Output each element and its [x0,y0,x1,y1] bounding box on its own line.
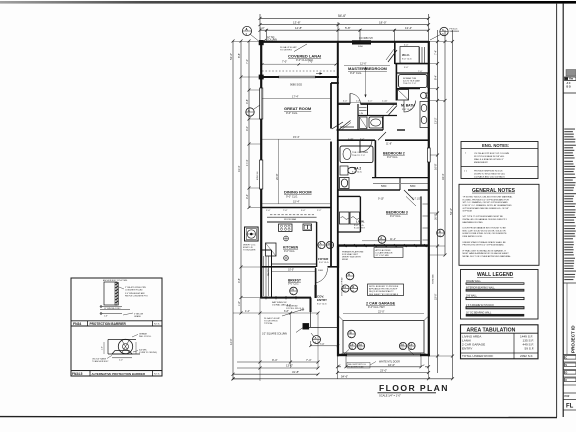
fn34.5 platform line [108,339,136,341]
svg-text:17'-4": 17'-4" [245,159,249,166]
bath2 tub [340,146,373,163]
svg-text:DINING ROOM: DINING ROOM [284,190,312,195]
fn34 leader notes right [119,287,124,289]
svg-text:16" OC BEARING WALL: 16" OC BEARING WALL [466,311,492,314]
detail marker circle top-right FN34.5 [440,27,448,35]
marker H brkfst [290,287,298,295]
mbath vanity [420,102,429,128]
svg-text:4'-4": 4'-4" [245,310,250,313]
mbath shower [398,90,409,101]
top dimension line third tier [260,29,429,31]
lanai south wall (great room north) [260,76,279,78]
svg-text:AREA TABULATION: AREA TABULATION [467,328,516,334]
great room dim line [262,98,331,100]
svg-text:9080 SGD: 9080 SGD [290,83,302,87]
svg-text:10'-0": 10'-0" [288,268,294,271]
exterior left wall [260,41,262,298]
svg-text:ROMAN TUB: ROMAN TUB [403,77,417,80]
svg-text:IF HVAC UNIT IS INSTALLED IN G: IF HVAC UNIT IS INSTALLED IN GARAGE, IT [463,249,507,252]
bed2 closet top wall [372,177,429,179]
title block date row [563,392,576,394]
svg-text:DOOR FROM GARAGE INTO HOUSE TO: DOOR FROM GARAGE INTO HOUSE TO BE [463,227,507,230]
garage door opening sill [346,353,421,355]
closet shelves bed2 [373,183,399,185]
brkfst nook dim [272,271,316,273]
svg-text:1'-0": 1'-0" [101,346,103,350]
svg-text:7'-4": 7'-4" [434,50,438,55]
svg-text:EMBEDMENT.: EMBEDMENT. [474,162,488,164]
garage builder note box [368,284,404,296]
svg-text:4'-0": 4'-0" [245,126,249,131]
bottom dim row 3 [233,373,318,375]
lin closet walls [357,104,359,130]
bath2/bed2 north wall [338,139,375,141]
pantry shelves [263,256,265,296]
kitchen lower counter [272,263,317,265]
svg-text:FN34.5: FN34.5 [72,372,83,376]
svg-text:6": 6" [339,365,341,367]
exterior top wall [260,41,429,43]
svg-text:WOOD BAR: WOOD BAR [284,218,297,221]
svg-text:TO BUILDER: TO BUILDER [243,250,256,252]
bottom dim row 4 overall [233,378,453,380]
right dimension ticks [436,40,454,380]
svg-text:GRADE: GRADE [134,315,141,318]
fn34 bollard post hatched [115,283,118,306]
svg-text:34'-4": 34'-4" [441,173,445,180]
garage bottom wall left segment [337,354,347,356]
svg-text:9'-0" CLG HGT: 9'-0" CLG HGT [296,59,313,62]
garage bottom wall right segment [420,354,430,356]
wic door diagonal [388,50,397,62]
svg-text:ALTERNATIVE PROTECTION BARRIER: ALTERNATIVE PROTECTION BARRIER [92,372,146,376]
svg-text:ENTRY: ENTRY [462,347,472,351]
sheet right border [556,3,558,417]
bed2 closet divider [399,178,401,190]
great room/hall opening wall lower [330,208,332,268]
svg-text:12" MIN DIA CONC.: 12" MIN DIA CONC. [104,307,121,310]
lanai corner column top-left [259,40,264,45]
svg-text:7'-0": 7'-0" [282,59,287,63]
left dimension extension lines [233,41,261,43]
kitchen fridge [266,243,277,256]
brkfst south bay window wall [260,297,311,299]
svg-text:ANCHOR BOLT 1/2"x6" MIN.: ANCHOR BOLT 1/2"x6" MIN. [103,279,128,282]
svg-text:23'-0": 23'-0" [380,368,387,372]
svg-text:18'-0": 18'-0" [379,20,387,24]
svg-text:10d NAILS AND (10) 10d NAILS: 10d NAILS AND (10) 10d NAILS [474,175,505,178]
garage west wall [337,246,339,356]
title block firm name row [565,77,576,80]
svg-text:FN 34.5: FN 34.5 [450,29,459,31]
mbath toilet [421,93,427,99]
svg-text:7'-0": 7'-0" [245,59,249,64]
bed3 door swing [404,190,414,200]
svg-text:BEDROOM 3: BEDROOM 3 [386,210,408,214]
svg-text:DB: DB [409,348,413,350]
kitchen upper counter [267,221,317,223]
fn34.5 leader notes [132,334,138,337]
entry west wall with front door [310,298,312,312]
bath2 east wall [374,140,376,177]
svg-text:LOCATE W/BLDR: LOCATE W/BLDR [376,252,393,255]
fn34.5 wheel drawing [118,339,132,353]
scanned page top edge strip [0,1,576,4]
svg-text:C: C [565,378,567,382]
svg-text:MASTER BEDROOM: MASTER BEDROOM [348,66,388,71]
svg-text:13'-4": 13'-4" [405,26,412,30]
svg-text:BAY WINDOW: BAY WINDOW [272,301,287,304]
svg-text:9'-0" CLG.: 9'-0" CLG. [387,156,398,159]
marker pair foyer top [318,241,325,248]
hall linen hatch [339,146,341,148]
svg-text:26 GA LP 40 HIP: 26 GA LP 40 HIP [264,317,280,320]
svg-text:F##: F## [565,394,570,398]
svg-text:CS 294-A3 STP BUILT UP COLUMN: CS 294-A3 STP BUILT UP COLUMN [474,152,510,155]
svg-text:11'-8": 11'-8" [386,143,392,146]
title block fine print text column [564,129,576,281]
svg-text:Hm: Hm [569,77,574,81]
right dimension extension lines [429,41,453,43]
bed3/laundry north wall [338,195,360,197]
svg-text:1'-6": 1'-6" [104,316,108,318]
marker circle right side B [437,229,445,237]
wic west wall [394,41,396,64]
laundry door on firewall [348,242,356,244]
svg-text:CONCRETE FILLED: CONCRETE FILLED [125,289,143,291]
svg-text:5'-0": 5'-0" [404,67,409,69]
svg-text:A: A [315,336,317,340]
svg-text:42x72 TILE DAM: 42x72 TILE DAM [403,80,420,83]
svg-text:2'-2": 2'-2" [317,210,322,212]
svg-text:59 S.F.: 59 S.F. [525,347,535,351]
title block section divider [563,92,576,94]
svg-text:PROJECT ID: PROJECT ID [571,325,576,353]
svg-text:FIRE RATED DOOR.: FIRE RATED DOOR. [463,235,483,238]
bath2 door arc [360,140,372,152]
svg-text:54'-6": 54'-6" [341,375,348,379]
svg-text:6'-8": 6'-8" [300,310,305,312]
svg-text:5'-8": 5'-8" [345,26,351,30]
top dimension line overall 54'-6" [260,17,429,19]
title block left edge [562,3,564,417]
svg-text:9'-0" CLG.: 9'-0" CLG. [350,71,362,75]
marker A entry [313,336,321,344]
svg-text:TILE TO 7'-0": TILE TO 7'-0" [352,155,365,157]
svg-text:26 GA LP 40 HIP: 26 GA LP 40 HIP [280,46,297,49]
svg-text:9'-0" CLG: 9'-0" CLG [354,225,364,227]
svg-text:9'-0" CLG.: 9'-0" CLG. [284,250,295,253]
svg-text:9'-0" CLG: 9'-0" CLG [317,303,327,305]
svg-text:12'-0": 12'-0" [229,338,233,345]
svg-text:9'-4" CLG. HGT.: 9'-4" CLG. HGT. [368,306,385,309]
title block small cells [563,354,576,356]
right middle vertical dimension line [444,30,446,255]
svg-text:ENTRY: ENTRY [317,298,327,302]
svg-text:4050 SH: 4050 SH [257,171,259,180]
fn34 label bar [71,320,162,322]
bed2 east window [427,148,430,162]
svg-text:BEDROOM 2: BEDROOM 2 [383,152,405,156]
svg-text:1/2" SQUARE COLUMN: 1/2" SQUARE COLUMN [262,332,287,335]
svg-text:SCALE 1/4" = 1'-0": SCALE 1/4" = 1'-0" [379,394,401,398]
svg-text:COVERED LANAI: COVERED LANAI [288,54,321,59]
svg-text:5'-0": 5'-0" [301,210,306,212]
left inner vertical dimension line [248,41,250,208]
right inner vertical dimension line [437,30,439,373]
kitchen wood bar dashed [270,214,314,216]
svg-text:20'-8": 20'-8" [434,213,438,220]
svg-text:7'-0": 7'-0" [418,71,423,73]
svg-text:22" X 54" MIN: 22" X 54" MIN [376,255,390,257]
lanai roof dashed line [262,70,336,72]
master vertical dim arrow [365,67,367,97]
marker pair garage west [342,285,349,292]
svg-text:BARRIER: BARRIER [450,30,460,33]
svg-text:15'-4": 15'-4" [293,200,300,204]
fn34.5 label bar [71,370,162,372]
wic closet shelves [419,47,421,63]
svg-text:MUST HAVE A MINIMUM OF 26 GAUG: MUST HAVE A MINIMUM OF 26 GAUGE SHEET [463,252,510,255]
svg-text:7'-4": 7'-4" [306,358,312,362]
svg-text:APPLIANCE PROTECTION IF: APPLIANCE PROTECTION IF [369,288,398,291]
bottom dimension ticks [232,361,431,381]
svg-text:9'-10": 9'-10" [378,197,384,200]
brkfst west wall (pantry) [261,249,271,251]
svg-text:WALL LEGEND: WALL LEGEND [477,272,514,278]
svg-text:HOSE BIB: HOSE BIB [433,274,435,284]
svg-text:4'-8": 4'-8" [237,278,241,283]
svg-text:1'-8": 1'-8" [238,301,241,306]
leader lines garage markers [343,349,349,355]
dining/kitchen divider wall [262,207,331,209]
svg-text:FOR HVAC UNIT: FOR HVAC UNIT [342,253,359,256]
left middle vertical dimension line [240,41,242,313]
firewall hatch ticks [344,244,347,247]
master south wall [338,103,350,105]
svg-text:9'-0" CLG.: 9'-0" CLG. [390,215,401,218]
svg-text:3/8" O.C. FRAMING, OR 5/8" GYP: 3/8" O.C. FRAMING, OR 5/8" GYPSUM BOARD [463,201,509,204]
column leader note [296,328,303,333]
svg-text:5/8" TYPE 'X' GYPSUM BOARD MUS: 5/8" TYPE 'X' GYPSUM BOARD MUST BE [463,215,504,218]
svg-text:5050: 5050 [358,46,364,48]
svg-text:MIN. 1-3/8" SOLID WOOD DOOR, S: MIN. 1-3/8" SOLID WOOD DOOR, SOLID OR [463,230,507,232]
svg-text:GYPSUM BOARD MAY BE GREENGLD.: GYPSUM BOARD MAY BE GREENGLD. OF 5/8" [463,207,510,210]
svg-text:PREMIER PLATFORM: PREMIER PLATFORM [342,250,363,253]
svg-text:DB: DB [350,348,354,350]
svg-text:FIN FLR CONCRETE FTG: FIN FLR CONCRETE FTG [125,295,148,297]
svg-text:LIN: LIN [360,113,364,115]
svg-text:N.T.S.: N.T.S. [154,324,160,326]
svg-text:A: A [380,236,382,240]
svg-text:2'-0": 2'-0" [119,360,123,362]
svg-text:LAUN.: LAUN. [356,220,365,224]
svg-text:8'-10" HGT: 8'-10" HGT [354,228,365,230]
svg-text:16'-8": 16'-8" [434,163,438,170]
svg-text:B O: B O [567,86,571,89]
svg-text:DB: DB [401,348,405,350]
svg-text:B: B [350,330,352,334]
svg-text:12" SQ.: 12" SQ. [267,37,275,39]
svg-text:ATTIC ACCESS: ATTIC ACCESS [376,249,391,252]
svg-text:CO 3050 SH: CO 3050 SH [359,37,373,40]
attic access note box [374,248,403,258]
svg-text:9'-0" CLG.: 9'-0" CLG. [288,283,299,286]
general notes box [459,184,539,265]
window great room west upper [260,88,263,119]
svg-text:WALLS & BRACED W/ MIN. 8": WALLS & BRACED W/ MIN. 8" [474,158,504,161]
sliding glass door 9080 SGD [278,75,316,77]
svg-text:IS USED, PROVIDE 1/2" GYPSUM B: IS USED, PROVIDE 1/2" GYPSUM BOARD FOR [463,198,510,201]
garage slab inner outline [343,321,424,354]
hall closet by master [340,126,354,128]
svg-text:TYPICAL: TYPICAL [264,322,274,325]
svg-text:5050: 5050 [381,185,387,188]
dimension tick marks top [259,17,431,32]
svg-text:WHITE MTL DOOR: WHITE MTL DOOR [379,361,400,364]
laundry east wall [359,196,361,232]
bed2 south wall [338,189,400,191]
svg-text:9'-0" CLG.: 9'-0" CLG. [286,194,298,198]
svg-text:13'-8": 13'-8" [293,20,301,24]
svg-text:PROTECTION BARRIER: PROTECTION BARRIER [90,322,127,326]
svg-text:TO 5/8 RFG: TO 5/8 RFG [280,50,292,52]
pantry east wall [271,250,273,297]
svg-text:"IF NOTED 'KNOCK CEILING TEXTU: "IF NOTED 'KNOCK CEILING TEXTURE' MATERI… [463,196,514,199]
svg-text:22'-0": 22'-0" [434,293,438,300]
svg-text:12'-6": 12'-6" [360,62,367,66]
svg-text:PROVIDE SIMPSON H2.5/LS: PROVIDE SIMPSON H2.5/LS [474,170,503,172]
svg-text:20'-8": 20'-8" [275,173,279,180]
svg-text:54'-6": 54'-6" [229,53,233,60]
title block sheet number cell [563,399,576,401]
svg-text:FL ALUMN CLAD: FL ALUMN CLAD [348,366,364,369]
kitchen ceiling fixtures [284,236,289,241]
svg-text:A: A [320,241,322,245]
title block project id cell [563,282,576,284]
kitchen sink [303,224,312,230]
hall door to master [339,121,351,130]
fn34 base dim lines [100,306,122,308]
svg-text:9'-0" CLG: 9'-0" CLG [319,262,329,264]
svg-text:9'-0" CLG.: 9'-0" CLG. [286,111,298,115]
fn34 tick circles [100,306,102,308]
svg-text:INSTALLED ON GARAGE CEILING DI: INSTALLED ON GARAGE CEILING DIRECTLY [463,218,508,221]
svg-text:2 CAR GARAGE: 2 CAR GARAGE [366,301,396,305]
svg-text:4'-8": 4'-8" [245,99,249,104]
bottom dim row 2 [237,367,318,369]
vent hood symbol outside left wall [245,227,259,241]
hall/great room divider wall [330,83,332,129]
fn34.5 detail box [71,326,162,376]
svg-text:WHL. B' ROLL: WHL. B' ROLL [139,336,151,338]
bed3 dims [362,240,420,242]
bed3 south wall / garage firewall [338,244,429,246]
left outer vertical dimension line [232,41,234,379]
right outer vertical dimension line [452,30,454,379]
leader note 12" sq column top-left [262,39,266,43]
svg-text:5050: 5050 [410,185,416,188]
bottom dim row 1 [237,361,318,363]
svg-text:2'-2": 2'-2" [360,138,365,140]
front door swing [315,268,317,283]
svg-text:31'-8": 31'-8" [292,370,299,374]
title block logo box (grey) [566,70,576,77]
svg-text:22'-0": 22'-0" [378,309,385,313]
top dimension line second tier [260,24,429,26]
svg-text:SEE SHEET "A" FOR DETAILS: SEE SHEET "A" FOR DETAILS [369,293,399,296]
hall west wall (bed wing) [337,77,339,141]
svg-text:HABITABLE ROOMS.: HABITABLE ROOMS. [463,221,484,224]
svg-text:7'-4": 7'-4" [320,343,325,346]
tub platform dark edge [427,74,430,89]
svg-text:S: S [565,363,567,367]
lanai corner column bottom-left [259,75,264,80]
roman tub top wall [396,72,429,74]
svg-text:2092 S.F.: 2092 S.F. [520,354,533,358]
wall legend box [461,270,539,320]
entry east wall upper (foyer to garage) [337,246,339,268]
svg-text:8'-4": 8'-4" [434,75,438,80]
svg-text:H: H [292,287,294,291]
porch column black [303,323,309,329]
lanai interior dim line [262,63,336,65]
svg-text:W/ STYLE B BASE W/ 5/8" A.B.: W/ STYLE B BASE W/ 5/8" A.B. [474,155,505,158]
svg-text:C: C [565,356,567,360]
svg-text:FN34: FN34 [73,322,81,326]
svg-text:DB: DB [359,348,363,350]
sheet bottom border [0,417,557,418]
svg-text:HEADER AT: HEADER AT [286,305,298,308]
svg-text:PANTRY: PANTRY [267,267,270,276]
great room sgd arrow [316,73,322,75]
fn34.5 right dim vertical [135,342,137,354]
svg-text:FOR 24" O.C. FRAMING. NOTE: AT: FOR 24" O.C. FRAMING. NOTE: AT GUARANTEE… [463,204,513,207]
left dimension ticks [232,40,251,381]
bottom dimension extension lines [259,298,261,381]
svg-text:7'-0": 7'-0" [283,210,288,212]
kitchen range [279,224,293,231]
svg-text:TOTAL UNDER ROOF: TOTAL UNDER ROOF [462,354,493,358]
svg-text:17'-4": 17'-4" [292,94,299,98]
svg-text:A: A [328,241,330,245]
svg-text:15'-4": 15'-4" [293,135,300,139]
svg-text:MFGR: MFGR [342,259,349,261]
bath2 toilet [340,178,350,189]
svg-text:1'-10": 1'-10" [348,138,354,140]
roman tub bottom wall [396,88,420,90]
svg-text:9'-4": 9'-4" [272,358,278,362]
marker circle A great room [246,108,254,116]
window great room west lower [260,160,263,189]
lin closet shelves [359,107,367,109]
svg-text:8'-8": 8'-8" [237,53,241,58]
marker B garage left [348,330,356,338]
master door swing [349,94,351,105]
laundry south wall [338,231,361,233]
svg-text:13'-2": 13'-2" [434,117,438,124]
svg-text:6'-8": 6'-8" [284,310,289,313]
roman tub [399,74,428,87]
svg-text:9'-0" CLG: 9'-0" CLG [402,58,412,60]
master top wall windows [352,40,371,42]
svg-text:54'-6": 54'-6" [338,14,346,18]
svg-text:FL: FL [566,404,574,410]
svg-text:METAL DUCT OR OTHER APPROVED M: METAL DUCT OR OTHER APPROVED MATERIAL. [463,255,512,258]
mbath lower walls above bath2 [382,116,384,131]
exterior right wall [428,41,430,356]
area tabulation box [461,325,539,359]
